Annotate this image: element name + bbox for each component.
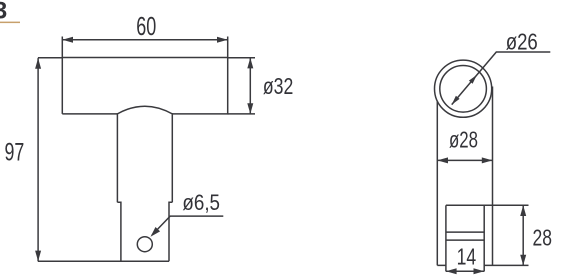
clamp top edge + 28 top extension [446, 204, 529, 206]
svg-text:14: 14 [457, 243, 477, 269]
body bottom segments + 28 bottom extension [437, 264, 528, 266]
dim o28 line [437, 159, 492, 161]
leader o6,5 [152, 216, 223, 235]
step right [169, 202, 172, 261]
clamp left edge [445, 205, 447, 271]
dim 97 line [37, 58, 39, 261]
arrowhead o32 top [247, 58, 253, 69]
part outline left view: top bar rectangle [62, 58, 227, 114]
svg-text:28: 28 [533, 224, 553, 250]
97 top extension line (top edge extended) [38, 57, 62, 59]
arrowhead 14 right [474, 268, 485, 274]
dim 28 line [522, 205, 524, 265]
part bottom edge + 97 extension line [38, 260, 169, 262]
svg-text:ø28: ø28 [449, 127, 478, 153]
leader o26 underline [452, 52, 551, 105]
svg-text:60: 60 [136, 11, 156, 41]
dim 60 extension lines [62, 37, 227, 58]
svg-text:3: 3 [0, 0, 7, 24]
arrowhead o26 upper [469, 75, 477, 84]
svg-text:97: 97 [5, 139, 25, 167]
hole circle [137, 237, 152, 252]
right view inner circle [440, 66, 487, 113]
svg-text:ø6,5: ø6,5 [182, 190, 220, 215]
svg-text:ø26: ø26 [506, 29, 538, 55]
stem dome arc [117, 106, 172, 114]
dim 14 line [446, 270, 484, 272]
arrowhead 14 left [446, 268, 457, 274]
stem upper left edge [116, 113, 118, 202]
body left edge [436, 101, 438, 265]
dim o32 line [249, 58, 251, 114]
arrowhead 60 right [217, 37, 228, 43]
arrowhead 97 bottom [35, 251, 41, 262]
body right edge [492, 87, 494, 266]
dim o32 extension lines [228, 58, 255, 114]
clamp right edge [483, 205, 485, 271]
step left [117, 202, 121, 261]
stem upper right edge [171, 113, 173, 202]
arrowhead 28 bottom [520, 255, 526, 266]
arrowhead o6,5 [151, 227, 161, 237]
arrowhead 97 top [35, 58, 41, 69]
arrowhead o28 right [482, 157, 493, 163]
logo orange underline [0, 22, 20, 24]
right view outer circle [435, 60, 492, 117]
dim 60 line [62, 39, 227, 41]
arrowhead o26 lower [452, 96, 460, 105]
arrowhead 28 top [520, 205, 526, 216]
arrowhead o32 bottom [247, 103, 253, 114]
arrowhead 60 left [62, 37, 73, 43]
svg-text:ø32: ø32 [263, 73, 293, 99]
arrowhead o28 left [437, 157, 448, 163]
clamp band lines [446, 232, 484, 240]
